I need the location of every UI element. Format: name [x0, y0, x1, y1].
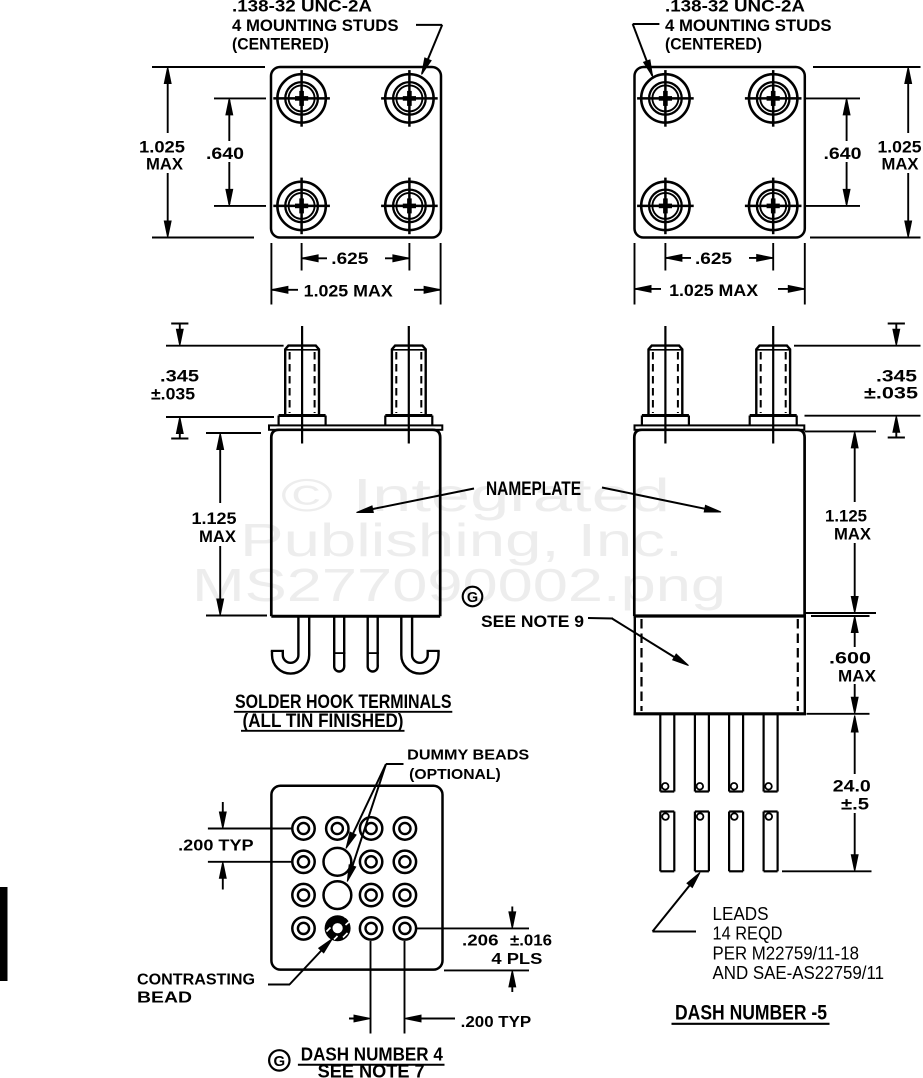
top view A: dimension .640 (vertical): [203, 98, 266, 205]
svg-text:.200 TYP: .200 TYP: [461, 1014, 532, 1031]
top view B: mounting stud 2: [745, 70, 802, 127]
terminal pin r1c2: [326, 817, 348, 839]
watermark line 1: [192, 469, 726, 611]
top view A: mounting stud 4: [381, 178, 438, 235]
contrasting bead (filled, hatched): [325, 915, 351, 942]
lead 1 upper segment: [660, 714, 674, 792]
side view A: stud 1: [279, 326, 326, 444]
solder hook terminal 3 (straight): [367, 617, 379, 673]
solder hook terminal 4 (J-hook right): [407, 617, 440, 668]
svg-text:24.0: 24.0: [833, 777, 871, 796]
dimension .206 +/-.016 4 PLS: [417, 907, 552, 993]
label DASH NUMBER -5 (underlined): [672, 1002, 830, 1025]
top view B: label .138-32 UNC-2A / 4 MOUNTING STUDS / (CENTERED): [665, 0, 832, 54]
top view A: mounting stud 3: [273, 178, 330, 235]
side view B: dimension 24.0 +/-.5: [782, 716, 876, 872]
top view A: mounting base outline: [271, 67, 441, 238]
side view B: stud 1: [642, 326, 689, 444]
side view A: stud 2: [385, 326, 432, 444]
svg-text:(CENTERED): (CENTERED): [665, 35, 762, 54]
note symbol G (bottom view): [269, 1050, 289, 1070]
terminal pin r1c4: [394, 817, 416, 839]
svg-text:.625: .625: [331, 250, 368, 268]
top view B: mounting stud 1: [637, 70, 694, 127]
svg-text:1.125: 1.125: [825, 507, 867, 526]
side view B: relay body: [634, 430, 804, 616]
svg-text:.138-32 UNC-2A: .138-32 UNC-2A: [665, 0, 805, 16]
terminal pin r4c4: [394, 917, 416, 939]
terminal pin r1c3: [360, 817, 382, 839]
svg-text:MAX: MAX: [838, 667, 877, 686]
svg-text:SEE NOTE 7: SEE NOTE 7: [318, 1062, 425, 1078]
side view B: lid: [635, 425, 805, 429]
svg-text:(ALL TIN FINISHED): (ALL TIN FINISHED): [243, 711, 404, 732]
lead 4 upper segment: [764, 714, 778, 792]
svg-text:MAX: MAX: [146, 155, 184, 174]
label DUMMY BEADS (OPTIONAL): [407, 747, 529, 784]
svg-text:±.035: ±.035: [151, 386, 195, 404]
top view A: mounting stud 2: [381, 70, 438, 127]
svg-text:4 PLS: 4 PLS: [491, 951, 542, 968]
svg-text:1.025 MAX: 1.025 MAX: [669, 281, 759, 300]
side view A: relay body: [271, 430, 440, 616]
svg-text:1.025 MAX: 1.025 MAX: [304, 282, 394, 301]
terminal pin r3c3: [360, 884, 382, 906]
side view A: body bottom edge: [271, 615, 440, 618]
svg-text:MAX: MAX: [882, 155, 920, 174]
svg-text:.345: .345: [160, 368, 199, 386]
solder hook terminal 1 (J-hook left): [271, 617, 304, 668]
svg-text:NAMEPLATE: NAMEPLATE: [486, 479, 581, 500]
dimension .200 TYP (bottom): [349, 941, 532, 1034]
black margin bar: [0, 887, 8, 981]
bottom view: base outline: [271, 786, 442, 970]
side view A: dimension 1.125 MAX: [188, 433, 267, 616]
solder hook terminal 2 (straight): [333, 617, 345, 673]
svg-text:G: G: [273, 1053, 285, 1070]
side view B: dimension .600 MAX: [807, 616, 880, 714]
svg-text:LEADS: LEADS: [713, 904, 769, 924]
top view A: label .138-32 UNC-2A / 4 MOUNTING STUDS / (CENTERED): [232, 0, 399, 54]
label SEE NOTE 9 with leader: [481, 612, 689, 666]
side view B: stud 2: [750, 326, 797, 444]
terminal pin r2c4: [394, 851, 416, 873]
lead 2 lower segment (broken continuation): [695, 812, 709, 872]
top view A: dimension .625 (bottom): [302, 243, 410, 271]
svg-text:.200 TYP: .200 TYP: [178, 838, 254, 855]
svg-text:(OPTIONAL): (OPTIONAL): [409, 766, 501, 783]
top view A: dimension 1.025 MAX (left vertical): [139, 67, 265, 238]
terminal pin r2c3: [360, 851, 382, 873]
side view A: dimension .345 +/-.035: [151, 324, 284, 439]
svg-text:.640: .640: [824, 144, 862, 163]
dummy bead 2 (optional): [324, 881, 352, 909]
svg-text:.206: .206: [462, 933, 499, 950]
svg-text:MAX: MAX: [834, 525, 872, 544]
svg-text:AND SAE-AS22759/11: AND SAE-AS22759/11: [713, 963, 885, 983]
svg-text:.640: .640: [206, 144, 244, 163]
dummy bead 1 (optional): [324, 848, 352, 876]
side view B: header case (see note 9 section): [634, 616, 807, 714]
svg-text:±.016: ±.016: [510, 933, 552, 950]
svg-text:BEAD: BEAD: [137, 990, 192, 1007]
label LEADS 14 REQD with leader: [653, 873, 885, 984]
svg-text:14 REQD: 14 REQD: [713, 924, 783, 944]
svg-text:±.035: ±.035: [864, 385, 918, 403]
terminal pin r1c1: [292, 817, 314, 839]
svg-text:DUMMY BEADS: DUMMY BEADS: [407, 747, 529, 764]
svg-text:4 MOUNTING STUDS: 4 MOUNTING STUDS: [232, 16, 399, 35]
label NAMEPLATE with arrows to both side views: [357, 479, 722, 513]
svg-text:(CENTERED): (CENTERED): [232, 35, 329, 54]
top view B: mounting stud 4: [745, 178, 802, 235]
svg-text:DASH NUMBER -5: DASH NUMBER -5: [675, 1002, 827, 1025]
terminal pin r2c1: [292, 851, 314, 873]
terminal pin r3c4: [394, 884, 416, 906]
label CONTRASTING BEAD with leader: [137, 939, 333, 1007]
svg-text:.600: .600: [829, 649, 871, 668]
svg-text:SEE NOTE 9: SEE NOTE 9: [481, 612, 584, 631]
svg-text:1.125: 1.125: [192, 509, 237, 528]
svg-text:4 MOUNTING STUDS: 4 MOUNTING STUDS: [665, 16, 832, 35]
top view B: leader to stud: [633, 24, 660, 77]
top view B: mounting base outline: [635, 67, 805, 238]
top view B: dimension 1.025 MAX (right vertical): [810, 67, 922, 238]
svg-text:SOLDER HOOK TERMINALS: SOLDER HOOK TERMINALS: [235, 692, 452, 713]
side view B: dimension .345 +/-.035: [794, 324, 921, 438]
svg-text:CONTRASTING: CONTRASTING: [137, 972, 255, 989]
lead 3 upper segment: [729, 714, 743, 792]
svg-text:.345: .345: [876, 368, 917, 386]
leader to dummy beads: [346, 764, 404, 882]
lead 4 lower segment (broken continuation): [764, 812, 778, 872]
lead 3 lower segment (broken continuation): [729, 812, 743, 872]
terminal pin r3c1: [292, 884, 314, 906]
dimension .200 TYP (left): [178, 802, 292, 890]
side view A: lid: [269, 425, 442, 429]
svg-text:PER M22759/11-18: PER M22759/11-18: [713, 944, 860, 964]
top view A: mounting stud 1: [273, 70, 330, 127]
top view A: dimension 1.025 MAX (bottom): [271, 243, 440, 305]
side view B: dimension 1.125 MAX: [805, 431, 876, 613]
svg-text:±.5: ±.5: [841, 795, 869, 814]
lead 2 upper segment: [695, 714, 709, 792]
top view A: leader to stud: [416, 25, 442, 75]
label SOLDER HOOK TERMINALS (underlined): [234, 692, 452, 732]
svg-text:G: G: [467, 590, 478, 606]
note symbol G (side view B): [463, 587, 483, 607]
lead 1 lower segment (broken continuation): [660, 812, 674, 872]
top view B: dimension .640 (right vertical): [806, 98, 864, 205]
svg-text:.625: .625: [695, 250, 732, 268]
top view B: dimension 1.025 MAX (bottom): [635, 243, 805, 305]
terminal pin r4c1: [292, 917, 314, 939]
svg-text:.138-32 UNC-2A: .138-32 UNC-2A: [232, 0, 372, 16]
terminal pin r4c3: [360, 917, 382, 939]
top view B: dimension .625 (bottom): [665, 243, 773, 271]
label DASH NUMBER 4 (underlined): [298, 1045, 445, 1065]
svg-text:MAX: MAX: [199, 527, 237, 546]
top view B: mounting stud 3: [637, 178, 694, 235]
